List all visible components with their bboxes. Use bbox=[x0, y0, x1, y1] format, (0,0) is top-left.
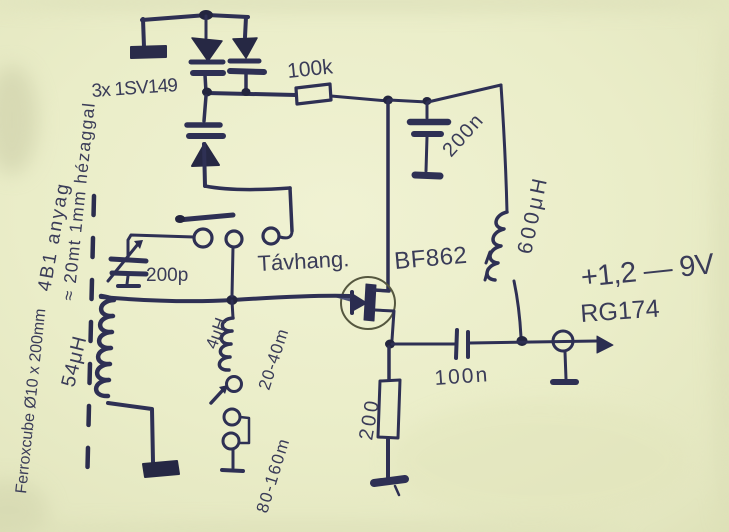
label Ferroxcube bbox=[13, 308, 49, 495]
inductor L1 54uH bbox=[96, 296, 153, 462]
wire varicap junction bus bbox=[207, 93, 296, 95]
varicap D1 bbox=[191, 16, 223, 92]
svg-text:Távhang.: Távhang. bbox=[257, 246, 350, 276]
wiper arrow bbox=[211, 385, 228, 403]
varicap D3 triangle bbox=[192, 143, 219, 166]
label supply +1,2-9V bbox=[579, 248, 716, 294]
wire 100n to output bbox=[470, 341, 597, 343]
connector J1 output bbox=[553, 331, 573, 351]
wire contact2 down to bus bbox=[232, 247, 233, 296]
svg-text:RG174: RG174 bbox=[579, 295, 660, 328]
ground antenna bar top-left bbox=[131, 46, 166, 58]
node switch contact 3 bbox=[263, 228, 279, 244]
wire to 200n bbox=[389, 100, 427, 102]
label 200p bbox=[146, 265, 188, 286]
varicap D3 bars bbox=[187, 125, 223, 136]
label 20mt 1mm hezaggal bbox=[58, 101, 99, 302]
wire main tuned bus bbox=[101, 296, 350, 302]
transistor Q1 BF862 bbox=[338, 277, 395, 340]
node drain junction bbox=[383, 96, 393, 105]
label 54uH bbox=[58, 333, 92, 389]
label 600uH bbox=[513, 173, 552, 256]
label 200 bbox=[355, 396, 384, 442]
ground under R2 bbox=[374, 479, 405, 495]
label BF862 bbox=[393, 242, 468, 275]
wire source to 100n bbox=[392, 343, 455, 346]
wire right drop to D2 bbox=[245, 17, 246, 37]
svg-text:100n: 100n bbox=[434, 363, 490, 390]
inductor L2 4uH bbox=[219, 301, 233, 370]
wire D3 to switch bbox=[204, 144, 292, 238]
wire top bus bbox=[142, 15, 248, 20]
ground under L1 bbox=[143, 461, 179, 477]
node junction right bbox=[242, 88, 251, 96]
capacitor C1 200p variable bbox=[108, 240, 146, 286]
wire to top-right corner bbox=[428, 85, 501, 102]
svg-text:100k: 100k bbox=[286, 55, 334, 83]
resistor R1 100k bbox=[296, 84, 331, 104]
node switch contact 2 bbox=[226, 231, 242, 247]
wire contact bracket bbox=[239, 417, 249, 443]
label 80-160m bbox=[253, 435, 294, 515]
label 100k bbox=[286, 55, 334, 83]
node contact 80-160m lower bbox=[223, 433, 239, 449]
wire right vertical to coil bbox=[501, 85, 507, 212]
capacitor C2 200n bbox=[410, 103, 448, 171]
wire source to resistor bbox=[387, 347, 391, 380]
capacitor C4 100n bbox=[456, 330, 468, 358]
wire 100k to drain node bbox=[331, 96, 388, 101]
wire drain vertical bbox=[386, 101, 390, 290]
label 20-40m bbox=[255, 326, 293, 392]
node switch contact 1 bbox=[194, 229, 212, 247]
inductor L3 600uH bbox=[485, 212, 521, 337]
arrow output bbox=[597, 336, 613, 353]
wire resistor to ground bbox=[386, 438, 390, 477]
label RG174 bbox=[579, 295, 660, 328]
node top junction bbox=[199, 10, 213, 20]
node contact 80-160m upper bbox=[224, 409, 240, 425]
node 200n junction bbox=[423, 97, 432, 105]
ferrite core dashed line bbox=[87, 196, 94, 489]
svg-text:200p: 200p bbox=[146, 265, 188, 286]
ground under output bbox=[553, 352, 576, 382]
label 100n bbox=[434, 363, 490, 390]
wire contact1 to 200p bbox=[128, 235, 194, 257]
switch lever Tavhang bbox=[175, 215, 233, 223]
wire contact stem bbox=[222, 449, 243, 471]
resistor R2 200 bbox=[378, 380, 400, 438]
label Tavhang bbox=[257, 246, 350, 276]
node bus junction bbox=[227, 295, 238, 305]
ground under 200n bbox=[415, 175, 440, 176]
label 4uH bbox=[202, 315, 231, 351]
varicap D2 bbox=[230, 38, 264, 91]
label 4B1 anyag bbox=[34, 180, 74, 293]
node output junction bbox=[517, 336, 528, 346]
node junction left bbox=[202, 88, 212, 97]
label 200n bbox=[438, 109, 488, 161]
node tap contact bbox=[227, 377, 242, 392]
label 3x 1SV149 bbox=[91, 75, 178, 102]
node source junction bbox=[385, 340, 395, 349]
wire left drop bbox=[143, 19, 144, 47]
varicap D3 stem bbox=[204, 96, 206, 121]
